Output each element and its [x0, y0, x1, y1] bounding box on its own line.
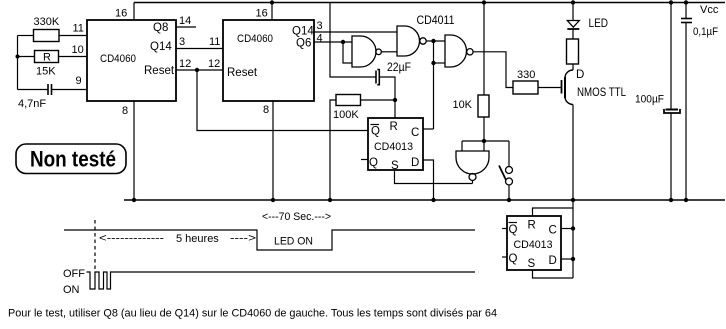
- wire U3B out to U3C top input: [426, 40, 445, 42]
- svg-text:8: 8: [263, 104, 269, 116]
- wire pin 3 (Q14) U2 to gate U3B: [314, 31, 397, 33]
- node junction dot: [482, 139, 486, 143]
- resistor R2 15K: [35, 51, 59, 78]
- nand gate U3B: [397, 26, 426, 56]
- node junction dot: [571, 257, 575, 261]
- wire U3D input tie bar: [462, 140, 509, 142]
- wire Vcc to 22uF: [330, 3, 376, 78]
- svg-text:R: R: [390, 121, 398, 133]
- svg-text:CD4011: CD4011: [417, 15, 455, 27]
- svg-text:---->: ---->: [230, 233, 256, 245]
- node junction dot: [270, 0, 274, 4]
- wire D pin U5: [561, 258, 573, 260]
- switch S1: [499, 166, 513, 186]
- svg-text:C: C: [411, 127, 419, 139]
- wire Q14(pin3) U1 to pin11 U2: [176, 48, 223, 50]
- wire S pin U4 to U3D output: [395, 170, 473, 184]
- svg-text:4: 4: [317, 33, 323, 45]
- svg-text:Q: Q: [509, 224, 518, 236]
- resistor R6 (LED series): [567, 39, 579, 64]
- svg-text:12: 12: [179, 58, 191, 70]
- node junction dot: [431, 198, 435, 202]
- IC U2 CD4060 (right): [223, 20, 314, 101]
- svg-text:Pour le test, utiliser Q8 (au: Pour le test, utiliser Q8 (au lieu de Q1…: [8, 308, 497, 320]
- nand gate U3D (pointing down): [456, 151, 489, 181]
- svg-text:LED ON: LED ON: [274, 236, 313, 248]
- wire LED to resistor: [572, 29, 574, 39]
- svg-text:100µF: 100µF: [635, 94, 664, 106]
- wire C pin stub U4: [423, 128, 434, 130]
- node junction dot: [431, 61, 435, 65]
- resistor R4 10K: [453, 95, 490, 117]
- svg-text:CD4060: CD4060: [237, 33, 273, 45]
- node junction dot: [571, 0, 575, 4]
- svg-text:14: 14: [179, 15, 191, 27]
- svg-text:9: 9: [76, 75, 82, 87]
- node junction dot: [571, 226, 575, 230]
- node junction dot: [482, 0, 486, 4]
- svg-text:Q14: Q14: [150, 41, 172, 53]
- wire Q stub U4: [361, 159, 368, 161]
- wire 22uF to R pin U4: [380, 77, 396, 118]
- wire 10K to gate U3D inputs: [483, 117, 485, 151]
- svg-text:22µF: 22µF: [387, 62, 411, 74]
- node junction dot: [684, 0, 688, 4]
- wire 100K left lead to ground: [330, 100, 336, 200]
- wire pin 9 U1: [18, 89, 49, 91]
- svg-text:OFF: OFF: [63, 268, 85, 280]
- wire U3C lower input: [434, 62, 446, 64]
- wire switch to ground: [508, 185, 510, 200]
- node junction dot reset: [195, 68, 199, 72]
- wire Vcc top rail: [134, 2, 725, 4]
- wire resistor to drain: [572, 64, 574, 70]
- svg-text:10: 10: [72, 44, 84, 56]
- node junction dot: [571, 198, 575, 202]
- wire R pin U5: [533, 208, 574, 216]
- Non teste badge: [16, 144, 126, 174]
- node junction dot: [271, 198, 275, 202]
- svg-text:Q: Q: [509, 253, 518, 265]
- svg-text:<-------------: <-------------: [99, 233, 164, 245]
- svg-text:R: R: [43, 52, 51, 64]
- resistor R1 330K: [34, 16, 60, 42]
- timing: dashed cursor: [94, 220, 96, 271]
- svg-text:4,7nF: 4,7nF: [18, 98, 46, 110]
- svg-text:Non testé: Non testé: [30, 147, 116, 172]
- svg-text:5 heures: 5 heures: [176, 233, 219, 245]
- svg-text:Q6: Q6: [296, 38, 311, 50]
- resistor R3 100K: [333, 95, 361, 122]
- wire pin 10 U1: [18, 56, 35, 58]
- svg-text:Q8: Q8: [153, 22, 168, 34]
- wire pin 16 U1: [133, 3, 135, 21]
- wire pin 14 stub (Q8, unconnected): [176, 26, 196, 28]
- node junction dot: [669, 0, 673, 4]
- wire 100K right lead: [361, 99, 396, 101]
- svg-text:CD4013: CD4013: [514, 239, 553, 251]
- wire Qbar feedback (4013 to resets): [197, 70, 368, 131]
- wire U3B out down to C pin U4: [433, 41, 435, 129]
- svg-text:CD4060: CD4060: [100, 53, 136, 65]
- wire source to ground: [572, 105, 574, 201]
- wire gate U3A tied inputs: [343, 42, 352, 63]
- svg-text:12: 12: [208, 58, 220, 70]
- svg-text:R: R: [528, 220, 536, 232]
- wire Vcc to LED: [572, 3, 574, 21]
- node junction dot: [393, 98, 397, 102]
- svg-text:CD4013: CD4013: [374, 141, 413, 153]
- capacitor C2 22uF: [376, 62, 411, 85]
- svg-text:NMOS TTL: NMOS TTL: [577, 87, 627, 99]
- svg-text:D: D: [576, 69, 584, 81]
- capacitor C4 0,1uF: [681, 3, 718, 201]
- svg-text:10K: 10K: [453, 99, 473, 111]
- wire U3D left input stub: [461, 141, 463, 151]
- timing: Q14 waveform: [64, 230, 475, 250]
- wire Qbar stub U5: [502, 228, 507, 230]
- wire pin 11 U1: [18, 35, 34, 37]
- wire Q stub U5: [502, 256, 507, 258]
- svg-text:Reset: Reset: [227, 67, 258, 79]
- resistor R5 330: [513, 69, 538, 94]
- wire U3C output to 330 resistor: [473, 52, 513, 88]
- wire Vcc down to 10K: [483, 3, 485, 96]
- wire S pin U5: [533, 270, 574, 278]
- svg-text:Reset: Reset: [144, 65, 175, 77]
- svg-text:3: 3: [179, 36, 185, 48]
- node junction dot: [132, 198, 136, 202]
- svg-text:Q: Q: [371, 126, 380, 138]
- svg-text:330K: 330K: [34, 16, 60, 28]
- svg-text:Q14: Q14: [292, 26, 314, 38]
- wire U3D output stub: [472, 181, 474, 184]
- svg-text:15K: 15K: [36, 66, 56, 78]
- wire pin 8 U1: [133, 101, 135, 200]
- wire pin 4 (Q6) U2 to gate U3A: [314, 41, 352, 43]
- transistor Q1 NMOS: [562, 70, 574, 105]
- svg-text:D: D: [549, 255, 557, 267]
- svg-text:0,1µF: 0,1µF: [693, 26, 718, 38]
- svg-text:8: 8: [122, 105, 128, 117]
- node junction dot: [431, 39, 435, 43]
- diode LED: [567, 21, 579, 30]
- svg-text:S: S: [528, 258, 536, 270]
- IC U5 CD4013 (lower, unused): [507, 216, 561, 270]
- svg-text:C: C: [549, 225, 557, 237]
- wire U5 tie vertical: [572, 200, 574, 278]
- node junction dot: [328, 198, 332, 202]
- IC U4 CD4013 (upper): [368, 118, 423, 172]
- timing: power waveform: [87, 272, 476, 289]
- wire Reset line U1-U2: [176, 69, 223, 71]
- svg-text:Q: Q: [369, 157, 378, 169]
- svg-text:LED: LED: [589, 18, 609, 30]
- svg-text:100K: 100K: [333, 109, 359, 121]
- wire left vertical (R-C network): [17, 36, 19, 90]
- svg-text:3: 3: [317, 20, 323, 32]
- wire C pin U5: [561, 228, 573, 230]
- svg-text:<---70 Sec.--->: <---70 Sec.--->: [262, 211, 331, 223]
- svg-text:16: 16: [256, 8, 268, 20]
- node junction dot: [341, 40, 345, 44]
- wire pin 16 U2: [271, 3, 273, 21]
- svg-text:16: 16: [115, 8, 127, 20]
- capacitor C3 100uF (electrolytic): [635, 3, 680, 201]
- wire U3A out to U3B in: [381, 51, 397, 53]
- svg-text:Vcc: Vcc: [700, 4, 719, 16]
- capacitor C1 4,7nF: [18, 84, 52, 110]
- svg-text:11: 11: [209, 36, 220, 48]
- wire ground rail: [124, 199, 725, 201]
- wire D pin U4 to ground: [423, 160, 434, 200]
- node junction dot: [684, 198, 688, 202]
- wire to switch: [508, 141, 510, 166]
- node junction dot: [669, 198, 673, 202]
- nand gate U3C: [445, 35, 473, 67]
- svg-text:330: 330: [517, 69, 535, 81]
- nand gate U3A: [352, 36, 381, 67]
- svg-text:11: 11: [73, 23, 84, 35]
- wire pin 8 U2: [272, 101, 274, 200]
- node junction dot: [507, 198, 511, 202]
- wire 330 to transistor gate: [538, 87, 561, 89]
- svg-text:D: D: [411, 157, 419, 169]
- node junction dot: [16, 55, 20, 59]
- svg-text:ON: ON: [63, 284, 80, 296]
- IC U1 CD4060 (left): [87, 20, 176, 101]
